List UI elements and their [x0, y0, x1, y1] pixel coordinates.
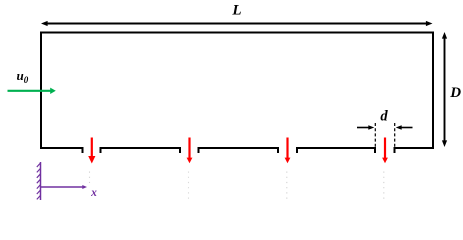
slot width extension line right	[394, 123, 396, 148]
svg-text:D: D	[449, 85, 461, 101]
suction jet arrow 3	[285, 138, 291, 164]
jet trace dotted line 3	[286, 172, 288, 203]
bottom wall segment 5	[395, 148, 435, 153]
bottom wall segment 3	[199, 148, 279, 153]
suction jet arrow 1	[88, 138, 95, 164]
slot width arrow right	[396, 125, 413, 130]
inlet velocity arrow u0	[8, 88, 56, 94]
svg-text:x: x	[90, 187, 97, 199]
svg-text:d: d	[380, 109, 388, 125]
jet trace dotted line 2	[188, 172, 190, 203]
channel top wall	[40, 32, 434, 34]
channel left wall	[40, 32, 42, 150]
x axis arrow	[41, 185, 88, 189]
bottom wall segment 1	[40, 148, 83, 153]
suction jet arrow 4	[382, 138, 388, 164]
bottom wall segment 2	[101, 148, 181, 153]
suction jet arrow 2	[187, 138, 193, 164]
origin wall hatch marks	[37, 163, 41, 199]
slot width arrow left	[357, 125, 374, 130]
dimension arrow L	[41, 21, 433, 26]
bottom wall segment 4	[297, 148, 375, 153]
slot width extension line left	[374, 123, 376, 148]
jet trace dotted line 4	[383, 172, 385, 203]
jet trace dotted line 1	[89, 172, 91, 184]
svg-text:L: L	[231, 2, 241, 18]
dimension arrow D	[442, 32, 447, 147]
origin wall line	[40, 162, 42, 200]
channel right wall	[432, 32, 434, 150]
